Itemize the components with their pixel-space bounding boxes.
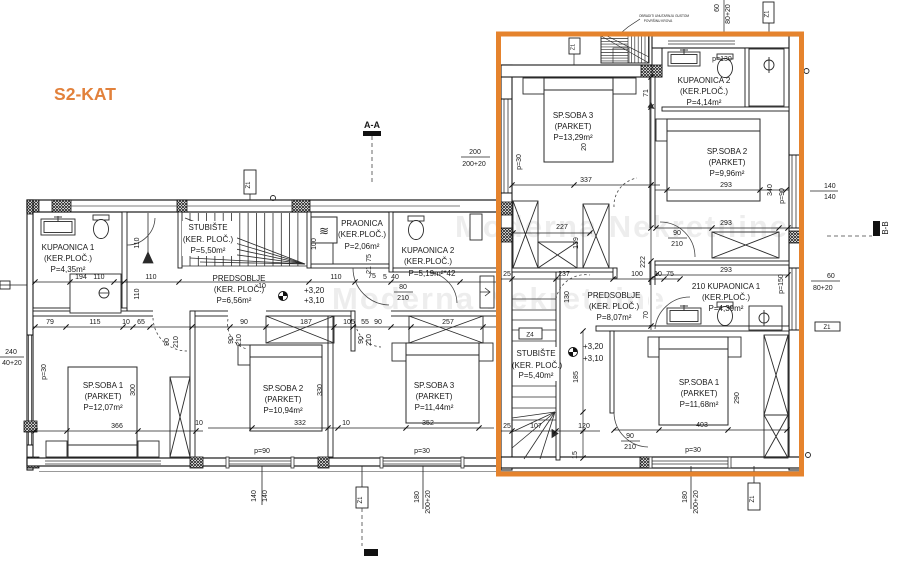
nightstand s1R b	[728, 337, 741, 357]
nightstand s3L b	[479, 343, 493, 361]
left wall window	[28, 335, 30, 445]
wardrobe soba2R	[712, 232, 779, 258]
svg-text:P=10,94m²: P=10,94m²	[263, 406, 303, 415]
wall kupaonica1 right	[122, 212, 127, 312]
svg-text:(KER.PLOČ.): (KER.PLOČ.)	[44, 254, 92, 263]
staircase right unit	[512, 299, 558, 459]
Z4 box	[519, 328, 542, 339]
svg-text:187: 187	[300, 319, 312, 326]
wardrobe soba3 top	[409, 316, 483, 343]
svg-text:90: 90	[240, 319, 248, 326]
wall corridor bottom	[33, 311, 512, 316]
svg-text:≋: ≋	[319, 224, 329, 238]
predsoblje door jamb	[613, 268, 617, 278]
svg-text:90: 90	[626, 433, 634, 440]
svg-text:55: 55	[361, 319, 369, 326]
svg-text:OBRADITI UNUTARNJU GUSTOM: OBRADITI UNUTARNJU GUSTOM	[639, 14, 689, 18]
svg-text:110: 110	[134, 237, 141, 248]
svg-text:Z1: Z1	[750, 495, 756, 503]
svg-text:10: 10	[342, 420, 350, 427]
nightstand s1L b	[138, 441, 159, 457]
right wall pier mid	[789, 231, 800, 243]
svg-text:SP.SOBA 1: SP.SOBA 1	[679, 378, 720, 387]
svg-text:(PARKET): (PARKET)	[709, 158, 746, 167]
door arc soba2R	[660, 222, 695, 257]
right left wall pier1	[501, 65, 512, 77]
svg-text:p=30: p=30	[414, 448, 430, 455]
svg-text:70: 70	[643, 311, 650, 319]
bed sp.soba2 R	[667, 119, 760, 201]
svg-text:15: 15	[572, 451, 579, 459]
svg-text:80+20: 80+20	[813, 285, 833, 292]
kupaonica1 toilet	[93, 215, 109, 239]
kup1R shower	[749, 306, 782, 330]
svg-text:110: 110	[145, 274, 156, 281]
svg-text:110: 110	[330, 274, 341, 281]
svg-text:Z1: Z1	[358, 496, 364, 504]
svg-text:P=5,50m²: P=5,50m²	[191, 246, 226, 255]
svg-text:75: 75	[666, 271, 674, 278]
wall central vert	[650, 77, 655, 330]
top wall window lines	[71, 205, 177, 207]
svg-text:(KER. PLOČ.): (KER. PLOČ.)	[183, 235, 234, 244]
svg-text:110: 110	[93, 274, 104, 281]
svg-text:90: 90	[228, 336, 235, 344]
wardrobe soba2 top	[266, 316, 334, 343]
bed sp.soba2 L	[250, 345, 322, 431]
wall kupaonica1 bottom	[33, 308, 127, 313]
svg-text:SP.SOBA 2: SP.SOBA 2	[707, 147, 748, 156]
door arc praonica	[353, 268, 389, 305]
svg-text:+3,10: +3,10	[304, 296, 325, 305]
svg-text:200+20: 200+20	[462, 161, 486, 168]
vert dim line 583	[582, 331, 584, 458]
wall kup2-shower vert	[745, 48, 749, 107]
orange highlight frame	[499, 34, 802, 474]
svg-text:STUBIŠTE: STUBIŠTE	[516, 349, 555, 358]
svg-text:293: 293	[720, 267, 732, 274]
svg-text:140: 140	[824, 194, 836, 201]
svg-text:Z4: Z4	[526, 332, 534, 339]
svg-text:140: 140	[824, 183, 836, 190]
closet X c	[538, 242, 577, 268]
svg-text:130: 130	[564, 291, 571, 303]
left unit bottom exterior wall	[27, 458, 512, 466]
svg-text:185: 185	[573, 371, 580, 383]
svg-text:40: 40	[391, 274, 399, 281]
svg-text:60: 60	[714, 4, 721, 12]
svg-text:200: 200	[469, 149, 481, 156]
right bottom window	[652, 460, 728, 462]
svg-text:71: 71	[643, 89, 650, 97]
svg-text:80+20: 80+20	[725, 4, 732, 24]
left wall pier bottom	[27, 457, 39, 468]
bottom pier b	[318, 457, 329, 468]
nightstand s1L a	[46, 441, 67, 457]
label stubiste L mask	[182, 221, 237, 256]
svg-text:300: 300	[130, 384, 137, 396]
svg-text:180: 180	[682, 491, 689, 503]
svg-text:60: 60	[827, 273, 835, 280]
dim 293 b	[655, 227, 789, 229]
svg-text:(KER. PLOČ.): (KER. PLOČ.)	[512, 361, 563, 370]
wardrobe between soba1-2	[170, 377, 190, 457]
svg-text:(KER.PLOČ.): (KER.PLOČ.)	[702, 293, 750, 302]
top circle marker	[271, 196, 276, 201]
bottom window 1	[45, 460, 161, 462]
dim 227	[512, 232, 592, 234]
svg-text:366: 366	[111, 423, 123, 430]
top wall east pier right	[789, 36, 800, 48]
wall kupaonica2 bottom	[393, 268, 512, 272]
svg-text:P=4,39m²: P=4,39m²	[709, 304, 744, 313]
svg-text:100: 100	[631, 271, 643, 278]
wall soba1-soba2	[190, 311, 195, 457]
bottom dim 140 140	[261, 466, 263, 505]
dim row bottom right unit	[501, 430, 600, 432]
left leader line	[0, 284, 27, 286]
right unit left exterior wall	[501, 65, 512, 470]
svg-text:p=130: p=130	[712, 56, 732, 63]
svg-text:P=4,14m²: P=4,14m²	[687, 98, 722, 107]
svg-text:PREDSOBLJE: PREDSOBLJE	[588, 291, 641, 300]
bed sp.soba1 L	[68, 367, 137, 457]
door gap kup1R	[649, 285, 656, 325]
svg-text:(KER. PLOČ.): (KER. PLOČ.)	[214, 285, 265, 294]
kupaonica2L door leaf	[480, 276, 494, 308]
svg-text:337: 337	[580, 177, 592, 184]
svg-text:p=30: p=30	[41, 364, 48, 380]
svg-text:227: 227	[556, 224, 568, 231]
wall kup1R-soba1R	[596, 326, 789, 331]
dim 237 row	[501, 278, 680, 280]
svg-text:330: 330	[317, 384, 324, 396]
right wall window1	[791, 155, 793, 228]
door arc soba2L	[228, 319, 247, 349]
svg-text:257: 257	[442, 319, 454, 326]
svg-text:5: 5	[383, 274, 387, 281]
svg-text:210: 210	[366, 334, 373, 346]
svg-text:SP.SOBA 3: SP.SOBA 3	[553, 111, 594, 120]
svg-text:105: 105	[343, 319, 355, 326]
svg-text:p=30: p=30	[685, 447, 701, 454]
svg-text:237: 237	[558, 271, 570, 278]
wall kup2 bottom	[662, 107, 789, 111]
dim 293 c	[655, 274, 789, 276]
svg-text:80: 80	[399, 284, 407, 291]
svg-text:SP.SOBA 3: SP.SOBA 3	[414, 381, 455, 390]
door gap soba3L	[355, 310, 391, 317]
svg-text:25: 25	[503, 423, 511, 430]
section B-B	[827, 235, 872, 237]
top Z1 right	[763, 2, 774, 23]
wardrobe soba1R low	[764, 415, 788, 458]
right wall pier bottom	[789, 457, 800, 468]
wall soba2-soba3	[328, 316, 333, 457]
svg-text:(PARKET): (PARKET)	[85, 392, 122, 401]
svg-text:P=9,96m²: P=9,96m²	[710, 169, 745, 178]
wall stubisteR right	[556, 268, 560, 460]
bed sp.soba3 R	[544, 78, 613, 162]
right unit top wall east	[652, 36, 800, 48]
svg-text:10: 10	[654, 271, 662, 278]
wall soba2-kup1R	[655, 261, 789, 265]
svg-text:79: 79	[46, 319, 54, 326]
svg-text:KUPAONICA 2: KUPAONICA 2	[402, 246, 455, 255]
svg-text:65: 65	[137, 319, 145, 326]
right left wall pier4	[501, 457, 512, 468]
svg-text:90: 90	[358, 336, 365, 344]
svg-text:140: 140	[262, 490, 269, 502]
bottom section bar A	[364, 549, 378, 556]
svg-text:P=5,19m²*42: P=5,19m²*42	[409, 269, 456, 278]
wardrobe soba1R tall	[764, 335, 788, 415]
svg-text:(PARKET): (PARKET)	[555, 122, 592, 131]
washing machine	[311, 217, 337, 243]
svg-text:210: 210	[624, 444, 636, 451]
svg-text:200+20: 200+20	[425, 490, 432, 514]
kup2R shower	[749, 49, 784, 106]
svg-text:KUPAONICA 1: KUPAONICA 1	[42, 243, 95, 252]
kup2R sink	[668, 49, 700, 66]
stair-bath pier bottom	[652, 65, 662, 77]
svg-text:10: 10	[195, 420, 203, 427]
wall predsoblje-soba1R	[610, 331, 614, 413]
svg-text:107: 107	[530, 423, 542, 430]
door arc soba3R	[614, 178, 637, 207]
svg-text:S2-KAT: S2-KAT	[54, 84, 116, 104]
top wall hatched pier a	[27, 200, 39, 212]
left wall pier top	[27, 200, 33, 214]
door arc soba3L	[355, 319, 381, 347]
svg-text:(PARKET): (PARKET)	[681, 389, 718, 398]
svg-text:(PARKET): (PARKET)	[416, 392, 453, 401]
upper landing stairs	[601, 36, 649, 63]
svg-text:100: 100	[311, 238, 318, 250]
right bottom pier mid	[640, 457, 652, 468]
left unit top exterior wall	[27, 200, 512, 212]
svg-text:352: 352	[422, 420, 434, 427]
stair-bath pier top	[652, 36, 662, 48]
svg-text:(KER.PLOČ.): (KER.PLOČ.)	[680, 87, 728, 96]
kupaonica2L cabinet	[470, 214, 482, 240]
bed sp.soba1 R	[659, 337, 728, 425]
kupaonica2L toilet	[408, 216, 424, 240]
svg-text:115: 115	[89, 319, 100, 326]
nightstand s3R a	[523, 78, 544, 94]
svg-text:210: 210	[671, 241, 683, 248]
svg-text:+3,20: +3,20	[304, 286, 325, 295]
svg-text:p=30: p=30	[516, 154, 523, 170]
dim line bottom row	[33, 326, 508, 328]
kupaonica1 sink	[41, 216, 75, 235]
top wall east window	[668, 40, 735, 42]
svg-text:403: 403	[696, 422, 708, 429]
svg-text:KUPAONICA 2: KUPAONICA 2	[678, 76, 731, 85]
staircase left unit treads+fan	[143, 213, 307, 266]
svg-text:210: 210	[173, 336, 180, 348]
svg-text:110: 110	[134, 288, 141, 299]
svg-text:40+20: 40+20	[2, 360, 22, 367]
bottom Z1 box left	[361, 466, 363, 487]
circle marker right top	[804, 69, 809, 74]
bed dim soba1L	[29, 430, 203, 432]
wall stubisteR top	[512, 268, 617, 272]
door arc kup1R	[655, 297, 690, 329]
door arc stub-pred R	[556, 275, 590, 299]
svg-text:21: 21	[366, 266, 373, 274]
bottom window 2	[229, 460, 291, 462]
closet X b	[583, 204, 609, 268]
right unit top wall west	[501, 65, 652, 77]
top Z1 box	[244, 170, 256, 194]
svg-text:290: 290	[734, 392, 741, 404]
right Z1 small box	[815, 322, 840, 331]
svg-text:P=12,07m²: P=12,07m²	[83, 403, 123, 412]
svg-text:25: 25	[503, 271, 511, 278]
top wall hatched pier c	[177, 200, 187, 212]
door gap soba2L	[228, 310, 266, 317]
svg-text:P=8,07m²: P=8,07m²	[597, 313, 632, 322]
svg-text:(KER. PLOČ.): (KER. PLOČ.)	[589, 302, 640, 311]
door gap soba1L	[153, 310, 190, 317]
svg-text:293: 293	[720, 220, 732, 227]
right bottom shadow	[512, 471, 800, 473]
right unit bottom exterior wall	[501, 457, 800, 468]
svg-text:90: 90	[164, 338, 171, 346]
svg-text:P=11,44m²: P=11,44m²	[415, 403, 454, 412]
dim 293 a	[655, 189, 789, 191]
Z1 box upper stairs	[569, 38, 580, 54]
door jamb soba3L	[351, 311, 355, 351]
svg-text:90: 90	[374, 319, 382, 326]
svg-text:(PARKET): (PARKET)	[265, 395, 302, 404]
svg-text:P=4,35m²: P=4,35m²	[51, 265, 86, 274]
svg-text:10: 10	[122, 319, 130, 326]
svg-text:194: 194	[75, 274, 87, 281]
svg-text:293: 293	[720, 182, 732, 189]
left small box	[0, 281, 10, 289]
svg-text:SP.SOBA 2: SP.SOBA 2	[263, 384, 304, 393]
door arc soba1R	[614, 413, 648, 447]
right wall window2	[791, 268, 793, 330]
svg-text:240: 240	[5, 349, 17, 356]
svg-text:SP.SOBA 1: SP.SOBA 1	[83, 381, 124, 390]
right bottom Z1 box	[753, 466, 755, 483]
svg-text:P=2,06m²: P=2,06m²	[345, 242, 380, 251]
svg-text:(KER.PLOČ.): (KER.PLOČ.)	[338, 230, 386, 239]
wall praonica-kupaonica2	[389, 212, 393, 272]
svg-text:Z1: Z1	[571, 44, 577, 50]
svg-text:210: 210	[236, 334, 243, 346]
kup1R sink	[667, 305, 701, 324]
svg-text:332: 332	[294, 420, 306, 427]
bed dims row	[208, 427, 494, 429]
svg-text:Z1: Z1	[765, 10, 771, 18]
svg-text:(KER.PLOČ.): (KER.PLOČ.)	[404, 257, 452, 266]
top wall hatched pier b	[52, 200, 71, 212]
wall stubiste left	[178, 212, 182, 268]
svg-text:10: 10	[258, 283, 266, 290]
door gap soba2R	[649, 228, 656, 261]
bottom wall shadow line	[39, 471, 512, 473]
dim 403	[613, 429, 788, 431]
svg-text:+3,20: +3,20	[583, 342, 604, 351]
top wall hatched pier d	[292, 200, 310, 212]
svg-text:P=5,40m²: P=5,40m²	[519, 371, 554, 380]
svg-text:90: 90	[673, 230, 681, 237]
level mark left	[279, 292, 288, 301]
right left wall pier2	[501, 202, 512, 215]
svg-text:200+20: 200+20	[693, 490, 700, 514]
nightstand s2L a	[238, 345, 250, 365]
right left wall window	[503, 99, 505, 193]
left unit left exterior wall	[27, 200, 33, 470]
svg-text:20: 20	[581, 143, 588, 151]
svg-text:B-B: B-B	[881, 221, 890, 234]
svg-text:75: 75	[366, 254, 373, 262]
level mark right	[569, 348, 578, 357]
vert arrow kup2	[648, 102, 655, 109]
bottom dim 180/200+20 left	[422, 466, 424, 509]
svg-text:p=150: p=150	[778, 274, 785, 294]
svg-text:PRAONICA: PRAONICA	[341, 219, 383, 228]
dim 337	[512, 184, 660, 186]
door arc soba1L	[153, 318, 187, 351]
nightstand s2R a	[656, 119, 667, 141]
dim line mid	[33, 281, 508, 283]
right bottom dim 180/200+20	[690, 466, 692, 509]
svg-text:210: 210	[397, 295, 409, 302]
nightstand s3R b	[613, 78, 636, 94]
svg-text:STUBIŠTE: STUBIŠTE	[188, 223, 227, 232]
svg-text:222: 222	[640, 256, 647, 268]
svg-text:340: 340	[767, 184, 774, 196]
door arc kupaonica2L	[425, 272, 457, 303]
svg-text:139: 139	[573, 237, 580, 249]
nightstand s3L a	[392, 343, 406, 361]
svg-text:180: 180	[414, 491, 421, 503]
wall praonica bottom	[311, 264, 389, 268]
svg-text:120: 120	[578, 423, 590, 430]
svg-text:Z1: Z1	[823, 325, 831, 331]
bottom pier a	[190, 457, 203, 468]
svg-text:P=13,29m²: P=13,29m²	[553, 133, 593, 142]
right unit right exterior wall	[789, 36, 800, 470]
circle marker right bottom	[806, 453, 811, 458]
kupaonica1 annex circle	[99, 288, 109, 298]
wall stubiste-praonica	[307, 212, 311, 268]
svg-text:140: 140	[251, 490, 258, 502]
vert dim line central	[650, 77, 652, 330]
top wall west pier right	[641, 65, 652, 77]
kup2R toilet	[717, 54, 733, 78]
svg-text:+3,10: +3,10	[583, 354, 604, 363]
left wall pier mid	[24, 421, 37, 432]
svg-text:POVRŠINU KROVA: POVRŠINU KROVA	[644, 18, 673, 23]
label stubiste R mask	[513, 347, 557, 381]
bottom window 3	[383, 460, 461, 462]
svg-text:P=11,68m²: P=11,68m²	[680, 400, 719, 409]
right left wall pier3	[501, 228, 512, 242]
svg-text:210 KUPAONICA 1: 210 KUPAONICA 1	[692, 282, 761, 291]
praonica lower cabinet	[311, 243, 333, 264]
svg-text:P=6,56m²: P=6,56m²	[217, 296, 252, 305]
svg-text:p=90: p=90	[779, 188, 786, 204]
kup1R toilet	[717, 302, 733, 326]
closet X a	[513, 201, 538, 268]
stair-bath wall	[652, 36, 662, 77]
